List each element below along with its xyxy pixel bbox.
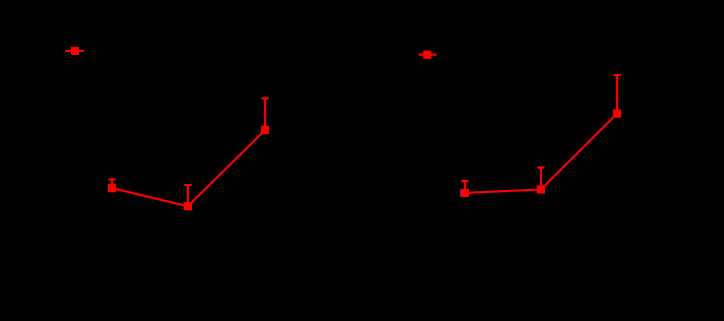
left series marker 1 — [108, 184, 116, 192]
left series error bar 3 — [261, 98, 268, 130]
left series error bar 1 — [108, 180, 115, 189]
right series marker 2 — [537, 185, 545, 193]
left legend marker — [65, 47, 84, 55]
left series error bar 2 — [184, 185, 191, 206]
left series marker 2 — [184, 202, 192, 210]
right series hidden marker blue — [460, 190, 461, 197]
left series line — [112, 130, 265, 206]
right series error bar 1 — [461, 181, 468, 193]
right series marker 1 — [461, 189, 469, 197]
right series marker 3 — [613, 110, 621, 118]
right series error bar 2 — [537, 168, 544, 190]
right legend marker — [419, 51, 437, 59]
right series line — [465, 114, 617, 193]
right series error bar 3 — [613, 75, 620, 114]
left series marker 3 — [261, 126, 269, 134]
